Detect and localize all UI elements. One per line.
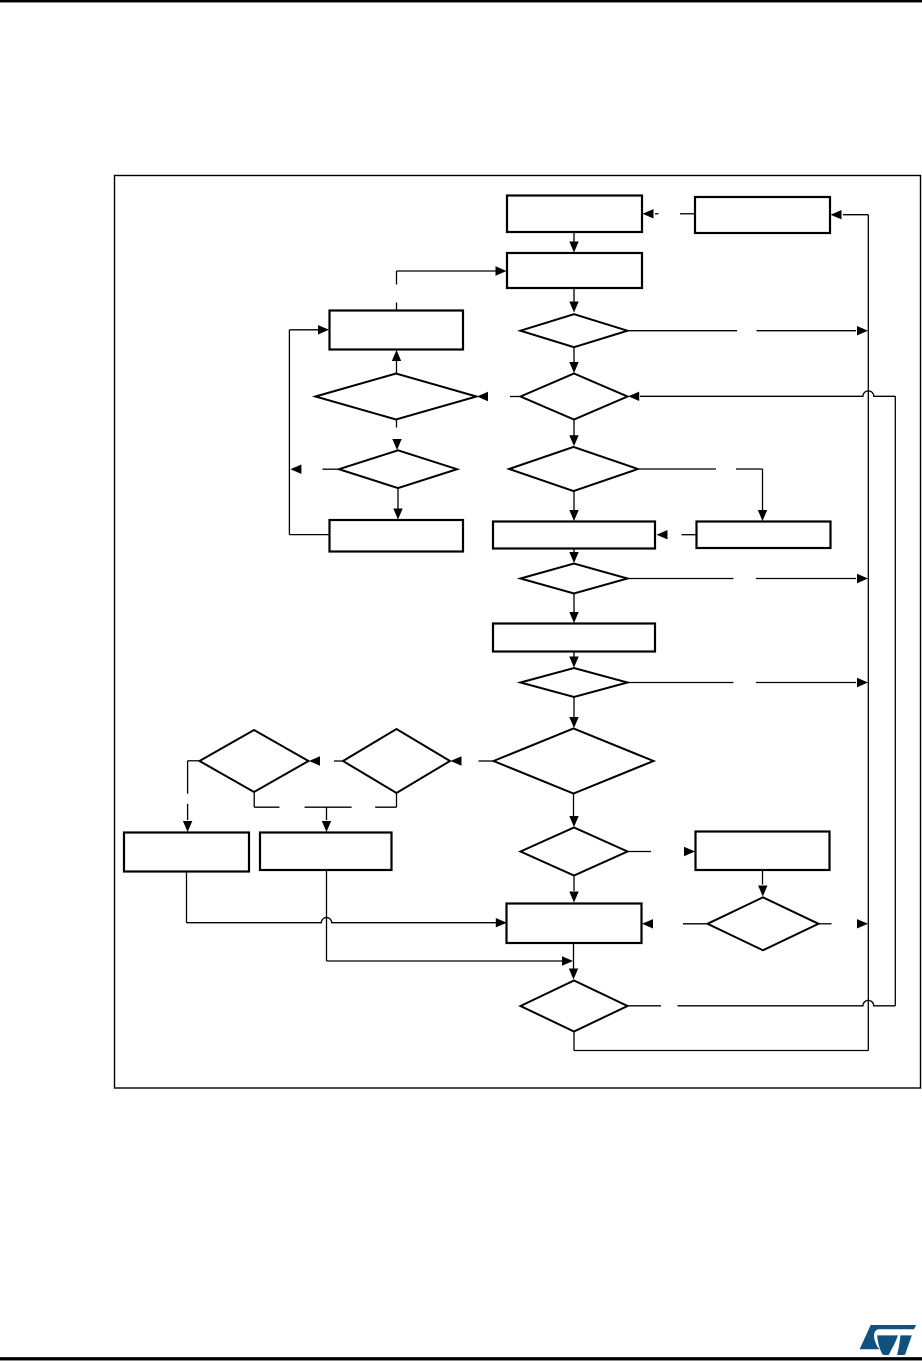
wire D8 to D11 (569, 794, 578, 828)
wire D11 to K (628, 847, 696, 856)
page top rule (0, 0, 922, 2)
wire D12 to V1 (819, 919, 869, 928)
box J (left bottom) (260, 833, 392, 871)
wire D13 bottom to V1 (574, 1032, 868, 1051)
wire D13 to V2 with hop over V1 (628, 1000, 895, 1005)
wire D5 to G (638, 469, 768, 521)
box F (center wide) (493, 522, 655, 549)
flowchart frame (115, 176, 921, 1089)
wire B to A (643, 209, 696, 218)
box K (right bottom) (696, 832, 830, 871)
wire D2 to D (392, 350, 401, 373)
wire K to D12 (758, 870, 767, 896)
diamond D6 (521, 564, 628, 594)
box C (second center) (507, 253, 642, 288)
diamond D10 (200, 730, 309, 792)
wire D10 and D9 bottoms to J (254, 793, 396, 832)
wire C to D1 (569, 288, 578, 313)
wire D12 to L (642, 919, 708, 928)
wire D3 to D5 (569, 420, 578, 447)
wire D to C (397, 266, 507, 310)
diamond D11 (521, 828, 628, 876)
wire E and V3 loop to D (289, 325, 329, 534)
diamond D12 (right) (708, 897, 819, 950)
wire V1 right riser (867, 215, 869, 1051)
wire D7 to V1 (628, 678, 869, 687)
ST logo (860, 1325, 917, 1355)
diamond D9 (343, 729, 450, 793)
wire D11 to L (569, 876, 578, 903)
page bottom rule (0, 1358, 922, 1360)
wire D4 to E (393, 488, 402, 520)
box B (top right) (695, 197, 830, 233)
wire D2 to D4 (392, 419, 401, 450)
diamond D2 (big left) (316, 374, 477, 420)
wire D3 to D2 (477, 392, 521, 401)
box L (center bottom) (507, 904, 642, 944)
wire V2 riser (894, 396, 896, 1006)
box D (left) (330, 311, 464, 350)
wire F to D6 (569, 549, 578, 564)
wire J to D13 feed (327, 871, 574, 966)
wire D10 to I (183, 761, 201, 832)
wire H to D7 (569, 652, 578, 668)
wire A to C (569, 232, 578, 253)
wire D1 to D3 (569, 347, 578, 373)
diamond D13 (bottom) (521, 981, 628, 1032)
wire G to F (657, 530, 697, 539)
diamond D3 (521, 374, 628, 420)
wire V1 into B (831, 210, 869, 219)
box I (far left bottom) (124, 833, 249, 872)
box G (right) (697, 522, 831, 549)
wire D9 to D10 (309, 756, 343, 765)
wire D5 to F (569, 491, 578, 521)
diamond D7 (521, 668, 628, 697)
diamond D5 (509, 447, 638, 491)
wire D6 to H (569, 594, 578, 624)
wire I to L with hop over J wire (187, 872, 507, 928)
diamond D8 (big center) (494, 729, 654, 794)
wire D6 to V1 (628, 574, 869, 583)
wire D7 to D8 (569, 697, 578, 728)
box E (left lower) (330, 520, 464, 552)
wire D1 to V1 (628, 326, 869, 335)
wire L to D13 (569, 943, 578, 980)
wire V2 to D3 with hop over V1 (628, 391, 895, 401)
diamond D4 (339, 450, 457, 488)
diamond D1 (521, 314, 628, 347)
wire D8 to D9 (451, 756, 494, 765)
box A (top center) (507, 196, 642, 233)
box H (center wide 2) (493, 624, 655, 652)
wire D4 to V3 (290, 465, 338, 474)
